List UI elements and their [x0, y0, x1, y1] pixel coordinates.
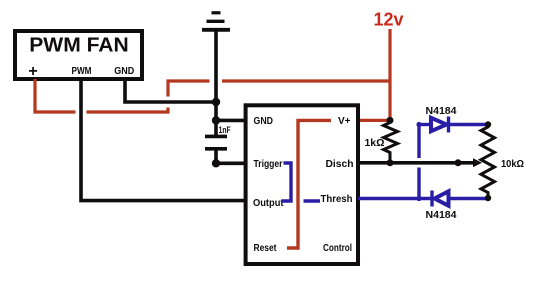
svg-text:1nF: 1nF	[219, 125, 231, 135]
svg-text:Control: Control	[323, 243, 352, 254]
wire: Disch line to potentiometer wiper	[358, 161, 475, 165]
svg-text:PWM FAN: PWM FAN	[29, 35, 129, 57]
wire: blue vertical below Disch crossing	[417, 168, 420, 199]
wire: blue line diode D2 to pot bottom	[449, 197, 487, 200]
svg-text:1kΩ: 1kΩ	[365, 138, 385, 149]
junction dot: pot top	[485, 121, 491, 127]
diode D1 triangle (points right)	[431, 118, 447, 131]
wire: capacitor bottom to trigger node	[214, 149, 218, 164]
svg-text:12v: 12v	[373, 10, 403, 30]
wire: red internal V+ to Reset link	[287, 120, 331, 248]
wire: fan GND pin down then right to ground stem	[125, 79, 216, 102]
wire: 555 GND pin stub	[216, 119, 247, 123]
capacitor C1 plates	[205, 136, 227, 148]
wire: red fan + pin drop	[35, 79, 76, 112]
wire: red V+ pin stub	[358, 119, 390, 122]
svg-text:V+: V+	[338, 116, 351, 127]
svg-text:Output: Output	[253, 198, 284, 209]
wire: blue internal link to Thresh	[304, 199, 321, 202]
resistor R1 1k zigzag	[384, 120, 398, 162]
svg-text:GND: GND	[114, 65, 134, 77]
PWM fan module box	[15, 31, 142, 79]
junction dot: resistor R1 bottom / Disch	[387, 159, 394, 166]
wire: fan PWM pin down and right to 555 Output pin	[81, 79, 247, 201]
potentiometer R2 10k zigzag	[481, 125, 495, 199]
svg-text:N4184: N4184	[426, 105, 457, 117]
wire: red horizontal after PWM crossing, up to corner	[87, 108, 169, 113]
junction dot: capacitor / trigger	[212, 159, 220, 167]
svg-text:N4184: N4184	[426, 209, 457, 221]
diode D2 (points left) cathode bar	[430, 191, 433, 207]
junction dot: 12v / V+ / resistor R1	[387, 117, 394, 124]
junction dot: ground stem / fan GND	[212, 98, 220, 106]
svg-text:PWM: PWM	[72, 65, 92, 77]
junction dot: blue vertical / D1	[416, 122, 421, 127]
wire: blue Thresh line left of diode D2	[358, 197, 431, 200]
wire: ground stem down to capacitor top plate	[214, 30, 218, 135]
wire: blue internal Trigger to Output bracket	[282, 163, 292, 201]
svg-text:Thresh: Thresh	[321, 194, 353, 205]
wire: 555 Trigger pin stub	[216, 162, 247, 166]
ground symbol	[202, 13, 230, 30]
wire: blue line to diode D1	[419, 123, 431, 126]
junction dot: pot bottom	[485, 195, 491, 201]
wire: red vertical above GND crossing, right toward 12v	[168, 81, 210, 97]
diode D2 triangle	[435, 191, 449, 205]
svg-text:GND: GND	[254, 116, 274, 127]
wire: blue line diode D1 to pot top	[450, 123, 486, 126]
junction dot: wiper connection	[455, 159, 462, 166]
svg-text:10kΩ: 10kΩ	[501, 158, 524, 170]
wire: 12v vertical rail	[388, 29, 391, 120]
svg-text:Disch: Disch	[326, 159, 354, 170]
555 timer IC box U1	[246, 105, 358, 264]
junction dot: ground stem / 555 GND pin	[212, 116, 220, 124]
diode D1 cathode bar	[447, 117, 450, 133]
wire: red horizontal to 12v rail after ground stem crossing	[222, 79, 390, 82]
junction dot: blue vertical / Thresh	[416, 196, 421, 201]
wiper arrowhead	[473, 158, 482, 167]
svg-text:Reset: Reset	[254, 243, 278, 254]
wire: blue vertical above Disch crossing	[417, 125, 420, 159]
svg-text:Trigger: Trigger	[254, 159, 283, 170]
svg-text:+: +	[28, 63, 37, 80]
